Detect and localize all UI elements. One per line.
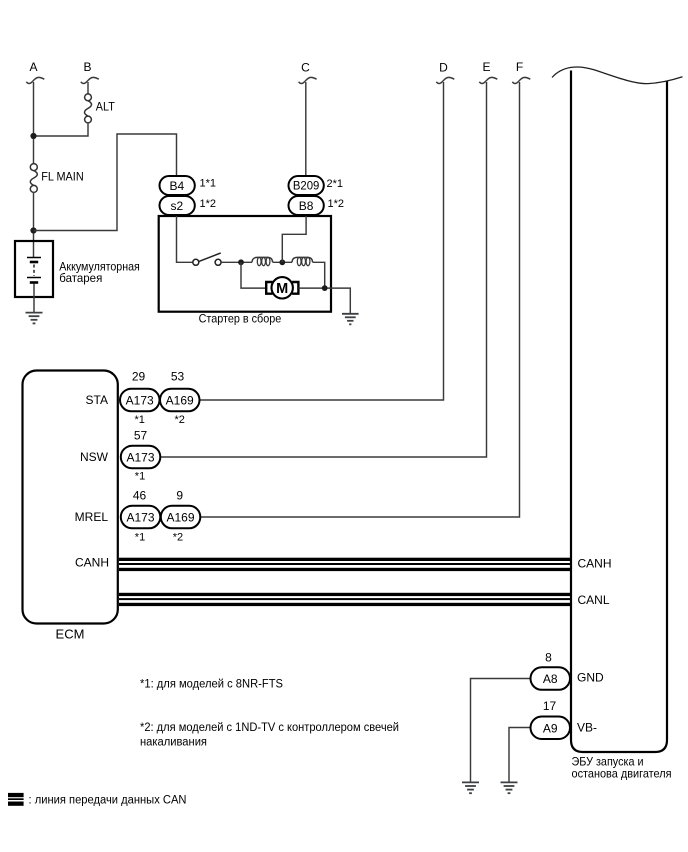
svg-text:VB-: VB-	[577, 721, 597, 735]
legend CAN line symbol	[8, 793, 24, 806]
wire coil2 to motor right	[313, 262, 325, 288]
pin 17 connector A9	[531, 699, 571, 739]
svg-text:17: 17	[543, 699, 557, 713]
battery Аккумуляторная батарея	[15, 241, 140, 312]
svg-text:B209: B209	[293, 181, 320, 193]
junction dot coil mid	[279, 259, 285, 265]
ECM block	[23, 371, 118, 624]
coil L2	[292, 257, 313, 262]
node A	[26, 60, 44, 84]
wire battery to B4 connector	[34, 134, 177, 231]
wire VB- to ground	[509, 728, 531, 783]
svg-text:57: 57	[134, 429, 148, 443]
node B	[81, 60, 99, 84]
node junction dot 1	[30, 133, 36, 139]
svg-text:D: D	[439, 61, 448, 75]
svg-text:9: 9	[176, 489, 183, 503]
node junction dot 2	[30, 227, 36, 233]
svg-text:s2: s2	[170, 199, 183, 213]
svg-text:2*1: 2*1	[327, 178, 344, 190]
pin 57 connector A173	[121, 429, 161, 483]
CAN bus CANH band	[119, 558, 572, 571]
svg-text:A173: A173	[126, 511, 154, 525]
svg-text:A169: A169	[166, 394, 194, 408]
svg-text:GND: GND	[577, 671, 604, 685]
wire junction down to motor left	[241, 262, 266, 288]
node D	[436, 61, 454, 84]
svg-text:F: F	[516, 60, 523, 74]
ground VB-	[501, 782, 518, 793]
svg-text:A: A	[29, 60, 37, 74]
connector B4	[160, 176, 217, 195]
wire GND to ground	[471, 679, 531, 783]
svg-text:B: B	[83, 60, 91, 74]
connector B209	[289, 176, 344, 195]
svg-text:B8: B8	[299, 199, 314, 213]
motor M	[266, 277, 298, 298]
node C	[299, 61, 317, 84]
wire B down	[87, 82, 89, 94]
svg-text:батарея: батарея	[59, 271, 102, 285]
svg-text:*1: *1	[135, 471, 145, 483]
svg-text:A173: A173	[126, 451, 154, 465]
svg-text:*1: *1	[134, 414, 144, 426]
connector s2	[160, 196, 217, 215]
svg-text:53: 53	[171, 370, 185, 384]
svg-text:*2: для моделей с 1ND-TV с кон: *2: для моделей с 1ND-TV с контроллером …	[140, 722, 399, 734]
svg-text:1*2: 1*2	[328, 198, 345, 210]
ECU block ЭБУ запуска и останова двигателя	[552, 67, 683, 781]
svg-text:MREL: MREL	[75, 510, 109, 524]
svg-text:A8: A8	[543, 672, 558, 686]
wire E to NSW	[160, 82, 486, 457]
svg-text:1*1: 1*1	[200, 178, 217, 190]
wire motor to ground	[299, 288, 351, 313]
svg-text:*1: для моделей с 8NR-FTS: *1: для моделей с 8NR-FTS	[140, 679, 283, 691]
node E	[479, 60, 497, 84]
coil L1	[252, 257, 273, 262]
CAN bus CANL band	[119, 593, 572, 606]
svg-text:*2: *2	[174, 414, 184, 426]
wire s2 to switch	[177, 215, 194, 263]
wire C down	[305, 82, 307, 177]
svg-text:STA: STA	[86, 393, 108, 407]
node F	[512, 60, 530, 84]
fuse FL MAIN	[30, 164, 83, 193]
starter box Стартер в сборе	[159, 216, 331, 312]
wire A down	[33, 82, 35, 164]
svg-text:A169: A169	[166, 511, 194, 525]
svg-text:FL MAIN: FL MAIN	[41, 169, 83, 183]
ground battery	[26, 313, 43, 324]
wire switch to coil junction	[221, 261, 252, 263]
wire between coils	[273, 261, 292, 263]
svg-text:M: M	[276, 281, 288, 297]
svg-text:A173: A173	[126, 394, 154, 408]
wire F to MREL	[200, 82, 519, 517]
junction dot motor right	[322, 285, 328, 291]
svg-text:ECM: ECM	[56, 627, 85, 642]
fuse ALT	[85, 94, 116, 123]
pin 9 connector A169	[161, 489, 201, 544]
wire B to junction	[34, 123, 89, 136]
pin 53 connector A169	[160, 370, 200, 427]
svg-text:46: 46	[133, 489, 147, 503]
pin 46 connector A173	[121, 489, 161, 544]
wire B8 to coil junction	[282, 215, 306, 263]
svg-text:Стартер в сборе: Стартер в сборе	[199, 312, 282, 326]
svg-text:CANH: CANH	[578, 557, 612, 571]
svg-text:A9: A9	[543, 722, 558, 736]
svg-text:8: 8	[545, 651, 552, 665]
switch	[193, 253, 221, 265]
connector B8	[289, 196, 345, 215]
ground GND	[462, 782, 479, 793]
junction dot starter left	[238, 259, 244, 265]
svg-text:: линия передачи данных CAN: : линия передачи данных CAN	[29, 795, 187, 807]
svg-text:B4: B4	[169, 179, 184, 193]
svg-text:останова двигателя: останова двигателя	[572, 767, 672, 781]
ground starter	[342, 314, 359, 325]
pin 8 connector A8	[531, 651, 571, 690]
svg-text:1*2: 1*2	[200, 198, 217, 210]
svg-text:E: E	[482, 60, 490, 74]
svg-text:CANH: CANH	[75, 556, 109, 570]
wire fuse to battery	[33, 192, 35, 257]
svg-text:*2: *2	[173, 532, 183, 544]
svg-text:NSW: NSW	[80, 450, 109, 464]
svg-text:C: C	[301, 61, 310, 75]
pin 29 connector A173	[120, 370, 160, 427]
svg-text:*1: *1	[135, 532, 145, 544]
svg-text:29: 29	[132, 370, 146, 384]
wire D to STA	[200, 82, 444, 400]
svg-text:CANL: CANL	[578, 593, 610, 607]
svg-text:ALT: ALT	[96, 100, 116, 114]
svg-text:накаливания: накаливания	[140, 737, 207, 749]
